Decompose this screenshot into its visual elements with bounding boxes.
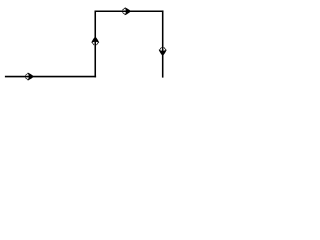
wire top horizontal	[95, 10, 164, 12]
wire left vertical	[94, 11, 96, 77]
arrowhead right on top wire	[123, 7, 131, 15]
arrowhead down on right vertical wire	[159, 48, 167, 56]
wire right vertical	[162, 10, 164, 77]
arrowhead up on left vertical wire	[91, 37, 99, 45]
wire bottom horizontal	[5, 76, 96, 78]
arrowhead right on bottom wire	[26, 73, 34, 81]
